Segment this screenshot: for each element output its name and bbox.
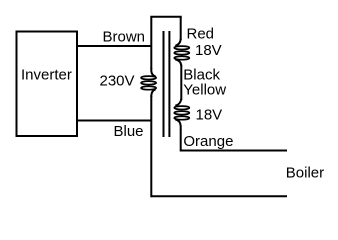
svg-text:Brown: Brown bbox=[103, 29, 146, 46]
svg-text:Red: Red bbox=[187, 25, 215, 42]
svg-text:230V: 230V bbox=[100, 72, 135, 89]
svg-text:Boiler: Boiler bbox=[286, 165, 324, 182]
svg-text:Inverter: Inverter bbox=[21, 67, 72, 84]
svg-text:Orange: Orange bbox=[183, 133, 233, 150]
svg-text:Yellow: Yellow bbox=[183, 82, 226, 99]
svg-text:18V: 18V bbox=[195, 42, 222, 59]
svg-text:Blue: Blue bbox=[114, 123, 144, 140]
svg-text:18V: 18V bbox=[196, 106, 223, 123]
